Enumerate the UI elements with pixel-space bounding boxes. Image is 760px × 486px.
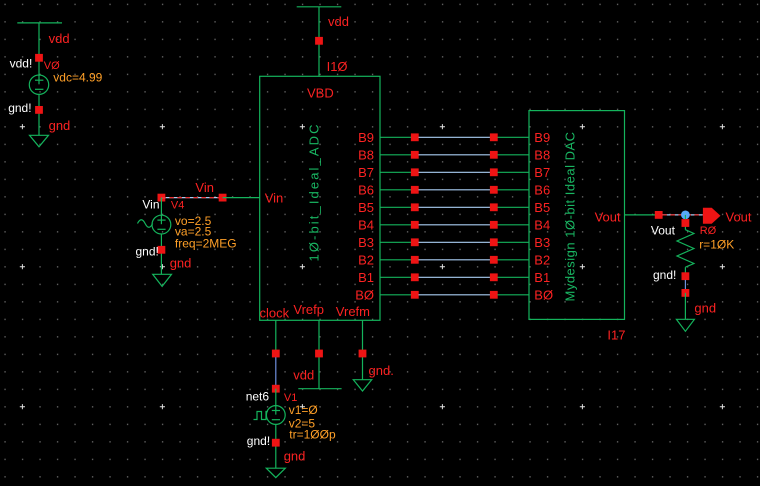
svg-text:1Ø-bit_Ideal_ADC: 1Ø-bit_Ideal_ADC xyxy=(307,122,322,261)
svg-text:gnd.: gnd. xyxy=(369,363,394,378)
wire R0 to square xyxy=(684,267,686,276)
pin square B1 left xyxy=(411,273,419,281)
pin square B2 right xyxy=(490,256,498,264)
svg-text:vdd: vdd xyxy=(293,368,314,383)
wire B9 to DAC xyxy=(498,136,530,138)
svg-text:net6: net6 xyxy=(246,390,270,404)
pin square B9 right xyxy=(490,133,498,141)
wire V4 stem upper xyxy=(160,198,162,225)
svg-text:Vin: Vin xyxy=(142,198,159,212)
svg-text:freq=2MEG: freq=2MEG xyxy=(175,237,237,251)
wire to ground (R0) xyxy=(684,293,686,319)
svg-text:BØ: BØ xyxy=(534,288,553,303)
svg-text:gnd: gnd xyxy=(284,448,306,463)
wire V0 minus to gnd xyxy=(38,94,40,135)
wire gnd stub (blue) xyxy=(684,280,686,289)
pin square Vrefm xyxy=(359,350,367,358)
pin square B6 left xyxy=(411,186,419,194)
ground symbol (V4) xyxy=(153,274,172,286)
pin square Vrefp xyxy=(315,350,323,358)
wire Vout dashed xyxy=(662,214,703,216)
wire B3 to DAC xyxy=(498,241,530,243)
svg-text:gnd!: gnd! xyxy=(136,245,159,259)
pulse glyph V1 xyxy=(254,412,268,420)
pin square B5 right xyxy=(490,203,498,211)
pin square B2 left xyxy=(411,256,419,264)
svg-text:B3: B3 xyxy=(358,235,374,250)
wire B5 bus (blue) xyxy=(419,206,491,208)
svg-text:B8: B8 xyxy=(534,148,550,163)
wire B1 ADC to bus square xyxy=(380,276,411,278)
svg-text:B6: B6 xyxy=(358,183,374,198)
wire B9 ADC to bus square xyxy=(380,136,411,138)
pin square B3 right xyxy=(490,238,498,246)
wire B8 to DAC xyxy=(498,154,530,156)
pin square B7 right xyxy=(490,168,498,176)
wire Vin to ADC xyxy=(223,197,260,199)
vdd rail bar (Vrefp) xyxy=(298,388,341,390)
svg-text:B4: B4 xyxy=(534,218,550,233)
wire B9 bus (blue) xyxy=(419,136,491,138)
wire B6 ADC to bus square xyxy=(380,189,411,191)
wire vdd to ADC VBD xyxy=(318,7,320,77)
pin square R0 PLUS xyxy=(682,219,690,227)
resistor R0 zigzag xyxy=(677,230,694,268)
pin square VBD xyxy=(315,37,323,45)
pin square V1 PLUS xyxy=(272,385,280,393)
svg-text:vdd: vdd xyxy=(328,14,349,29)
wire vdd bar to V0 plus xyxy=(38,23,40,84)
svg-text:gnd: gnd xyxy=(694,301,716,316)
wire B8 ADC to bus square xyxy=(380,154,411,156)
svg-text:B4: B4 xyxy=(358,218,374,233)
pin square V4 MINUS xyxy=(158,246,166,254)
svg-text:gnd: gnd xyxy=(170,256,192,271)
ground symbol (V1) xyxy=(266,468,285,477)
wire B5 ADC to bus square xyxy=(380,206,411,208)
wire B6 bus (blue) xyxy=(419,189,491,191)
wire B4 bus (blue) xyxy=(419,224,491,226)
svg-text:Vin: Vin xyxy=(195,180,214,195)
vdd rail bar (I10 supply) xyxy=(297,6,342,8)
ground symbol (Vrefm) xyxy=(353,380,371,391)
svg-text:B2: B2 xyxy=(358,253,374,268)
svg-text:B8: B8 xyxy=(358,148,374,163)
wire Vin dashed segment xyxy=(161,197,222,199)
svg-text:gnd: gnd xyxy=(49,118,71,133)
wire B1 to DAC xyxy=(498,276,530,278)
svg-text:B1: B1 xyxy=(358,270,374,285)
svg-text:B5: B5 xyxy=(358,200,374,215)
op block U: 10-bit Ideal ADC outline xyxy=(260,76,380,320)
wire B7 to DAC xyxy=(498,171,530,173)
pin square gnd (R0) xyxy=(682,289,690,297)
wire Vout node to R0 xyxy=(684,215,686,230)
svg-text:vdd: vdd xyxy=(49,31,70,46)
svg-text:B9: B9 xyxy=(534,130,550,145)
sine glyph V4 xyxy=(138,220,153,228)
svg-text:B1: B1 xyxy=(534,270,550,285)
node Vout solder dot xyxy=(681,211,690,220)
pin square R0 MINUS xyxy=(682,272,690,280)
svg-text:Vrefp: Vrefp xyxy=(293,302,324,317)
wire B3 bus (blue) xyxy=(419,241,491,243)
pin square B3 left xyxy=(411,238,419,246)
svg-text:B2: B2 xyxy=(534,253,550,268)
wire B6 to DAC xyxy=(498,189,530,191)
wire B1 bus (blue) xyxy=(419,276,491,278)
wire V4 minus to gnd xyxy=(160,234,162,274)
wire B0 to DAC xyxy=(498,294,530,296)
wire B2 bus (blue) xyxy=(419,259,491,261)
wire Vrefp down xyxy=(318,320,320,388)
pin square V1 MINUS xyxy=(272,439,280,447)
svg-text:gnd!: gnd! xyxy=(247,434,270,448)
ground symbol (R0) xyxy=(676,319,694,331)
wire B5 to DAC xyxy=(498,206,530,208)
vpulse source V1 xyxy=(266,406,285,425)
pin square B6 right xyxy=(490,186,498,194)
svg-text:B3: B3 xyxy=(534,235,550,250)
pin square B9 left xyxy=(411,133,419,141)
pin square V4 PLUS / node Vin xyxy=(158,194,166,202)
pin square V0 MINUS xyxy=(35,106,43,114)
svg-text:r=1ØK: r=1ØK xyxy=(699,237,734,251)
svg-text:Vout: Vout xyxy=(595,210,621,225)
wire B8 bus (blue) xyxy=(419,154,491,156)
svg-text:gnd!: gnd! xyxy=(653,268,676,282)
wire B7 bus (blue) xyxy=(419,171,491,173)
wire ADC clock down xyxy=(275,320,277,353)
vdc source V0 xyxy=(29,75,48,94)
wire V1 stem upper xyxy=(275,389,277,415)
pin square B8 left xyxy=(411,151,419,159)
svg-text:clock: clock xyxy=(260,305,290,320)
svg-text:I17: I17 xyxy=(607,327,625,342)
pin square wire end xyxy=(219,194,227,202)
wire Vrefm down xyxy=(362,320,364,379)
svg-text:B7: B7 xyxy=(358,165,374,180)
pin square B1 right xyxy=(490,273,498,281)
wire B4 to DAC xyxy=(498,224,530,226)
pin square B7 left xyxy=(411,168,419,176)
pin square B0 right xyxy=(490,291,498,299)
svg-text:vdd!: vdd! xyxy=(10,57,33,71)
svg-text:B9: B9 xyxy=(358,130,374,145)
svg-text:B5: B5 xyxy=(534,200,550,215)
wire B7 ADC to bus square xyxy=(380,171,411,173)
pin square B4 right xyxy=(490,221,498,229)
wire B3 ADC to bus square xyxy=(380,241,411,243)
pin square Vout xyxy=(655,211,663,219)
svg-text:B6: B6 xyxy=(534,183,550,198)
svg-text:Vin: Vin xyxy=(265,191,284,206)
pin square B4 left xyxy=(411,221,419,229)
wire B0 bus (blue) xyxy=(419,294,491,296)
svg-text:RØ: RØ xyxy=(700,225,717,237)
svg-text:vdc=4.99: vdc=4.99 xyxy=(53,71,102,85)
svg-text:B7: B7 xyxy=(534,165,550,180)
wire B0 ADC to bus square xyxy=(380,294,411,296)
svg-text:I1Ø: I1Ø xyxy=(327,59,348,74)
wire net6 (blue) xyxy=(275,357,277,385)
pin square V0 PLUS xyxy=(35,54,43,62)
vdd rail bar (net vdd!) xyxy=(17,22,62,24)
wire DAC Vout xyxy=(625,214,656,216)
block I17: Mydesign 10-bit Ideal DAC outline xyxy=(529,111,625,320)
svg-text:Vout: Vout xyxy=(726,210,752,225)
wire B2 ADC to bus square xyxy=(380,259,411,261)
svg-text:tr=1ØØp: tr=1ØØp xyxy=(289,427,336,441)
svg-text:v1=Ø: v1=Ø xyxy=(289,403,318,417)
svg-text:VBD: VBD xyxy=(307,86,334,101)
pin square B0 left xyxy=(411,291,419,299)
svg-text:V4: V4 xyxy=(171,200,184,212)
wire V1 minus to gnd xyxy=(275,424,277,468)
output pin symbol Vout xyxy=(703,208,721,224)
svg-text:Vout: Vout xyxy=(651,223,676,237)
svg-text:gnd!: gnd! xyxy=(8,101,31,115)
wire B2 to DAC xyxy=(498,259,530,261)
pin square clock xyxy=(272,350,280,358)
ground symbol (V0) xyxy=(30,135,49,147)
wire B4 ADC to bus square xyxy=(380,224,411,226)
pin square B5 left xyxy=(411,203,419,211)
svg-text:BØ: BØ xyxy=(355,288,374,303)
svg-text:Vrefm: Vrefm xyxy=(336,304,370,319)
pin square B8 right xyxy=(490,151,498,159)
vsin source V4 xyxy=(152,215,171,234)
svg-text:Mydesign 1Ø-bit Ideal DAC: Mydesign 1Ø-bit Ideal DAC xyxy=(563,131,578,301)
